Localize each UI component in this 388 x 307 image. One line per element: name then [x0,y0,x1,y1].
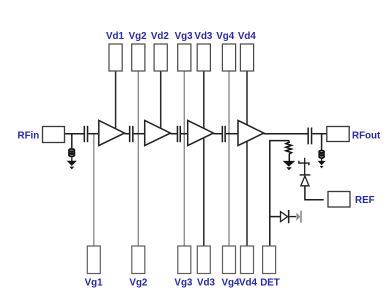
wire D1 to D2 [289,216,296,218]
node Vg4 (gate bias line 4) [228,71,230,246]
pad Vg2 (bottom) [132,246,145,274]
capacitor C5 (output) [307,128,312,145]
pad Vd3 (bottom) [197,246,210,274]
node Vg3 (gate bias line 3) [183,71,185,246]
svg-text:Vg1: Vg1 [85,278,104,289]
inductor L2 (output shunt coil) [319,151,324,159]
pad Vd4 (top) [240,44,253,71]
wire C3 to amp A3 [181,133,188,135]
wire A1 to C2 [124,133,130,135]
pad Vg1 (bottom) [87,246,100,274]
pad Vd1 (top) [109,44,122,71]
wire shunt drop at input node [71,134,73,150]
wire detector tap (corner to resistor) [270,141,289,246]
diode D3 cathode bar [300,174,311,175]
schottky bar (hooked) [299,161,309,166]
node Vd4 (drain bias line 4) [246,71,248,246]
svg-text:Vg3: Vg3 [174,278,193,289]
op-amp A2 (stage 2) [145,120,171,145]
capacitor C1 [84,126,89,142]
pad Vg4 (top) [222,44,235,71]
port REF box [328,192,350,208]
diode D2 (gray) [296,213,300,221]
ground (output) [318,161,326,169]
svg-text:RFin: RFin [18,130,40,141]
node Vd3 (drain bias line 3) [203,71,205,246]
wire A2 to C3 [170,133,178,135]
wire C1 to amp A1 [88,133,99,135]
svg-text:Vd1: Vd1 [106,31,125,42]
pad Vd4 (bottom) [241,246,254,274]
pad DET (bottom) [263,246,276,274]
node Vg2 (gate bias line 2) [137,71,139,246]
wire output shunt drop [321,134,323,151]
wire A3 to C4 [213,133,222,135]
diode D1 (detector, series) [281,212,288,222]
wire C5 to RFout box [312,133,327,135]
port RFin box [43,127,65,143]
ground (input) [67,161,77,170]
pad Vg4 (bottom) [223,246,236,274]
op-amp A4 (stage 4) [238,120,264,145]
svg-text:Vg2: Vg2 [129,278,148,289]
pad Vg3 (bottom) [178,246,191,274]
diode stack to REF: top stub [304,158,306,175]
capacitor C3 [177,126,181,142]
ground (detector) [283,161,296,170]
op-amp A3 (stage 3) [188,120,214,145]
wire C2 to amp A2 [134,133,145,135]
svg-text:Vd2: Vd2 [151,31,170,42]
wire C4 to amp A4 [226,133,238,135]
svg-text:Vg4: Vg4 [216,31,235,42]
pad Vg3 (top) [178,44,191,71]
pad Vg2 (top) [132,44,145,71]
svg-text:RFout: RFout [352,130,381,141]
wire L1 to ground [71,158,73,162]
capacitor C2 [129,126,134,142]
op-amp A1 (stage 1) [99,120,125,145]
wire RFin box to C1 [65,133,85,135]
pad Vd2 (top) [154,44,167,71]
svg-text:DET: DET [260,278,280,289]
port RFout box [327,127,349,142]
wire A4 output to C5 [264,133,309,135]
inductor L1 (input shunt coil) [69,149,75,157]
svg-text:Vg2: Vg2 [129,31,148,42]
svg-text:Vd4: Vd4 [239,278,258,289]
diode D3 (to REF) [301,176,309,186]
pad Vd3 (top) [197,44,210,71]
wire L2 to ground [321,158,323,161]
svg-text:Vd4: Vd4 [238,31,257,42]
svg-text:Vg3: Vg3 [175,31,194,42]
wire DET branch to diode D1 [270,216,281,218]
node Vg1 (gate bias line 1) [93,134,95,246]
svg-text:Vd3: Vd3 [194,31,213,42]
node Vd2 (drain bias line 2) [160,71,162,131]
svg-text:Vg4: Vg4 [222,278,241,289]
node Vd1 (drain bias line 1) [115,71,117,131]
capacitor C4 [222,126,226,142]
svg-text:Vd3: Vd3 [197,278,216,289]
svg-text:REF: REF [355,195,375,206]
wire D3 to REF box [305,186,324,200]
resistor R1 (detector shunt) [286,141,292,161]
